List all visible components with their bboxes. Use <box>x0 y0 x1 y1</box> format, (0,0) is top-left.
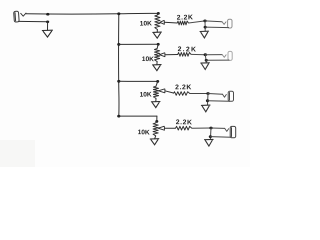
resistor R2 2.2K <box>178 53 191 57</box>
junction: output 4 tap <box>209 127 212 130</box>
wire: output 1 ground drop <box>204 21 206 31</box>
ground (VR4 bottom) <box>150 139 159 145</box>
wire: input ground drop <box>47 22 49 30</box>
wire: output 3 ground drop <box>207 94 210 105</box>
resistor R3 2.2K <box>173 92 189 96</box>
resistor R4 2.2K <box>176 126 192 130</box>
wire: VR4 wiper to R4 <box>164 127 175 129</box>
output jack J3 tip contact <box>222 55 226 58</box>
input jack J1 <box>14 11 20 22</box>
output jack J4 tip contact <box>223 94 227 97</box>
potentiometer VR4 wiper arrow <box>158 126 164 130</box>
junction: VR2 top <box>157 43 160 46</box>
potentiometer VR2 wiper arrow <box>160 53 165 57</box>
junction: output 3 tap <box>206 92 209 95</box>
wire: R4 to output junction <box>192 127 211 129</box>
wire: J2 sleeve return <box>205 26 228 29</box>
svg-text:10K: 10K <box>140 20 152 27</box>
wire: R1 to output junction <box>189 21 205 23</box>
wire: bus to VR3 <box>119 80 158 82</box>
svg-text:10K: 10K <box>138 129 150 136</box>
wire: J4 sleeve return <box>208 100 230 103</box>
wire: VR1 top lead <box>156 13 159 15</box>
wire: VR3 wiper to R3 <box>165 91 174 93</box>
wire: VR4 bottom lead <box>155 136 156 139</box>
junction: J4 sleeve <box>206 99 209 102</box>
wire: corner drop to VR4 <box>156 116 158 121</box>
junction: VR3 top <box>156 80 159 83</box>
wire: VR2 bottom lead <box>156 62 158 65</box>
junction: bus tap 2 <box>117 43 120 46</box>
output jack J2 <box>228 19 232 28</box>
ground (VR2 bottom) <box>153 65 162 71</box>
ground (output 3) <box>201 105 210 112</box>
wire: junction to J5 tip <box>211 127 225 129</box>
svg-text:10K: 10K <box>142 56 154 63</box>
wire: junction to J3 tip <box>205 54 222 56</box>
potentiometer VR2 10K element <box>155 49 160 62</box>
wire: J3 sleeve return <box>206 59 229 61</box>
wire: VR3 top lead <box>156 81 158 86</box>
output jack J4 <box>228 91 233 101</box>
output jack J5 <box>230 126 236 137</box>
wire: output 2 ground drop <box>205 55 206 63</box>
junction: J2 sleeve <box>204 26 207 29</box>
svg-text:2.2K: 2.2K <box>178 46 198 53</box>
junction: top rail dot <box>46 13 49 16</box>
wire: VR1 wiper to R1 <box>164 21 177 24</box>
junction: output 2 tap <box>204 53 207 56</box>
wire: VR3 bottom lead <box>155 98 157 101</box>
svg-text:2.2K: 2.2K <box>176 119 193 126</box>
ground (output 4) <box>205 139 214 146</box>
junction: VR1 top <box>157 12 160 15</box>
wire: VR2 wiper to R2 <box>165 54 178 56</box>
wire: bus to VR4 <box>119 115 157 117</box>
potentiometer VR4 10K element <box>153 123 158 136</box>
wire: VR1 bottom lead <box>156 30 158 33</box>
wire: R3 to output junction <box>190 93 208 95</box>
svg-text:10K: 10K <box>140 91 152 98</box>
ground (VR3 bottom) <box>151 102 160 108</box>
svg-text:2.2K: 2.2K <box>177 14 194 21</box>
wire: VR2 top lead <box>157 44 158 48</box>
wire: VR4 top lead <box>156 121 157 123</box>
junction: bus tap 4 <box>117 115 120 118</box>
wire: output 4 ground drop <box>209 128 212 139</box>
wire: vertical bus <box>118 14 120 116</box>
wire: J1 sleeve <box>19 20 48 22</box>
output jack J3 <box>228 51 232 60</box>
svg-text:2.2K: 2.2K <box>175 84 192 91</box>
ground (output 2) <box>201 63 210 70</box>
potentiometer VR3 10K element <box>153 86 158 98</box>
ground (output 1) <box>200 31 209 38</box>
wire: J1 tip to bus (top rail) <box>26 12 158 15</box>
output jack J2 tip contact <box>222 22 226 25</box>
resistor R1 2.2K <box>177 21 188 25</box>
wire: J5 sleeve return <box>210 136 231 139</box>
potentiometer VR1 wiper arrow <box>160 20 165 24</box>
junction: J1 sleeve to ground <box>46 21 49 24</box>
junction: J3 sleeve <box>205 59 208 62</box>
junction: VR4 top <box>155 120 158 123</box>
wire: junction to J4 tip <box>208 93 223 96</box>
potentiometer VR3 wiper arrow <box>158 89 165 93</box>
output jack J5 tip contact <box>225 128 229 131</box>
wire: junction to J2 tip <box>205 20 222 23</box>
input jack J1 tip contact <box>21 13 26 16</box>
ground (VR1 bottom) <box>153 32 162 38</box>
wire: R2 to output junction <box>191 53 205 55</box>
wire: bus to VR2 <box>119 43 158 45</box>
junction: J5 sleeve <box>209 135 212 138</box>
junction: output 1 tap <box>203 20 206 23</box>
ground (input) <box>42 30 52 37</box>
potentiometer VR1 10K element <box>155 15 160 30</box>
junction: bus tap 3 <box>117 80 120 83</box>
junction: bus top tap <box>117 12 120 15</box>
